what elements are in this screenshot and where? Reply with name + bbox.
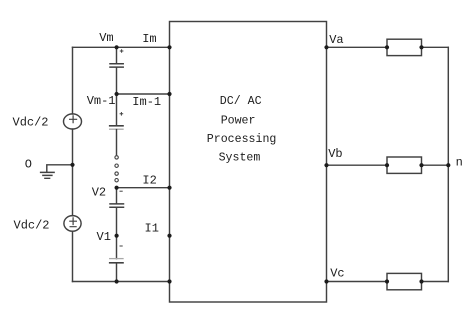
wire cap Cm-1 down to dotted continuation [116,130,118,155]
wire Vm-1 node to cap Cm-1 [116,94,118,125]
capacitor Cm-1 [110,125,123,127]
svg-text:O: O [25,158,32,172]
node I1 junction dot on box edge [167,234,171,238]
junction dot Rb left terminal [385,163,389,167]
svg-text:Processing: Processing [207,133,277,146]
junction dot Rc left terminal [385,279,389,283]
wire Vb rail [327,164,388,166]
capacitor Cm [110,64,123,67]
node V2 junction dot [115,186,119,190]
polarity - mark (cap C1) [120,245,122,247]
wire Vc rail [327,281,388,283]
svg-text:Vc: Vc [330,266,344,280]
wire Vc resistor to right bus [422,281,449,283]
node Va junction dot on box edge [324,45,328,49]
resistor Ra [387,39,422,55]
node V1 junction dot [115,234,119,238]
node Im junction dot on box edge [167,45,171,49]
wire cap Cm to Vm-1 rail [116,68,118,94]
svg-text:I2: I2 [142,173,156,187]
wire cap C2 to V1 node [116,208,118,259]
DC/AC power processing system box U1 [170,22,327,303]
svg-text:V2: V2 [92,185,106,199]
wire bottom rail (left) [73,281,170,283]
wire Im rail (left top rail from source column to box) [73,46,170,48]
wire ground branch [47,165,73,172]
resistor Rc [387,273,422,289]
voltage source Vdc/2 (bottom) [64,216,81,232]
svg-text:System: System [219,151,261,164]
junction dot Ra right terminal [419,45,423,49]
capacitor C2 [110,204,124,207]
junction dot Rc right terminal [419,279,423,283]
svg-text:Power: Power [221,114,256,127]
node Vb junction dot on box edge [324,163,328,167]
svg-text:Im: Im [142,32,156,46]
junction dot Ra left terminal [385,45,389,49]
svg-text:Va: Va [329,33,343,47]
wire left column middle segment [72,129,74,216]
node Vm junction dot [115,45,119,49]
svg-text:V1: V1 [97,230,111,244]
junction dot bottom rail at box edge [167,279,171,283]
wire Im-1 rail [117,93,170,95]
resistor Rb [387,157,422,173]
svg-text:Vdc/2: Vdc/2 [13,116,49,130]
node Vm-1 junction dot [115,92,119,96]
wire right bus (node n vertical) [447,47,449,281]
svg-text:DC/ AC: DC/ AC [220,95,262,108]
node I2 junction dot on box edge [167,186,171,190]
polarity + mark (cap Cm-1) [120,113,123,116]
svg-text:Vm-1: Vm-1 [87,94,116,108]
node Im-1 junction dot on box edge [167,92,171,96]
svg-text:Vm: Vm [99,31,113,45]
wire V2 node to cap C2 [116,188,118,204]
polarity - mark (cap C2) [120,190,122,192]
wire I2 rail [117,187,170,189]
node Vc junction dot on box edge [324,279,328,283]
wire cap C1 to bottom rail [116,263,118,281]
svg-text:Vdc/2: Vdc/2 [14,219,50,233]
junction dot bottom rail at cap column [115,279,119,283]
wire Va rail [327,46,388,48]
capacitor C1 [110,258,123,260]
ground [41,172,55,178]
svg-text:Im-1: Im-1 [132,95,161,109]
svg-text:n: n [456,155,463,169]
wire capacitor column: Vm node to cap Cm [116,47,118,63]
svg-text:Vb: Vb [328,147,342,161]
voltage source Vdc/2 (top) [64,114,82,129]
continuation dots (chain ellipsis) [115,156,118,182]
junction dot Rb right terminal [419,163,423,167]
polarity + mark (cap Cm) [120,50,123,53]
wire left column upper segment [72,47,74,114]
wire left column lower segment [72,231,74,281]
svg-text:I1: I1 [145,222,159,236]
node n junction dot on right bus [446,163,450,167]
wire Vb resistor to right bus [422,164,449,166]
junction dot ground node O [70,163,74,167]
wire Va resistor to right bus [422,46,449,48]
